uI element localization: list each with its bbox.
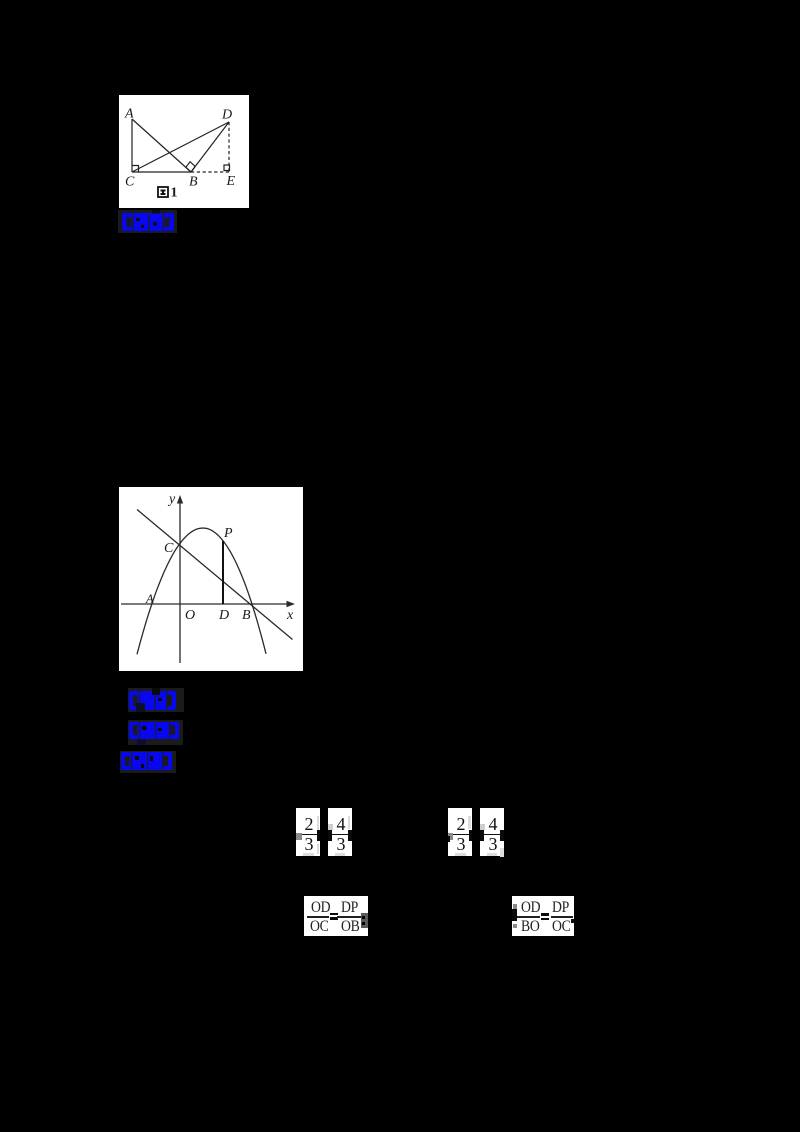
figure 1 image (geometry diagram)	[119, 95, 249, 208]
formula image fraction 4/3 (second)	[480, 808, 504, 856]
svg-text:B: B	[242, 608, 251, 623]
wire A-B	[132, 119, 191, 172]
blue tag 【考点】	[128, 688, 184, 712]
parabola curve	[137, 528, 266, 654]
wire D-B	[191, 122, 229, 172]
right-angle mark at C	[132, 166, 139, 173]
right-angle mark at E	[224, 165, 230, 171]
line through C and B	[137, 510, 293, 640]
blue tag 【专题】	[128, 720, 183, 745]
x-axis arrowhead	[287, 601, 296, 607]
dark notch bottom	[136, 703, 145, 712]
svg-text:E: E	[226, 174, 236, 189]
segment P-D	[222, 541, 224, 604]
formula image OD/OC = DP/OB	[304, 896, 368, 936]
blue tag 【分析】	[120, 751, 176, 773]
svg-text:A: A	[145, 592, 154, 606]
svg-text:A: A	[124, 107, 134, 122]
wire D-C	[132, 122, 229, 172]
artifact gray square left	[296, 833, 302, 840]
y-axis arrowhead	[177, 495, 183, 504]
y-axis	[179, 502, 181, 663]
dashed wire B-E	[191, 171, 229, 173]
artifact black bar right	[348, 830, 352, 841]
artifact mark right edge	[571, 919, 575, 924]
right-angle mark at B	[186, 162, 195, 172]
svg-text:D: D	[221, 108, 232, 123]
caption 图1	[158, 187, 168, 197]
formula image fraction 4/3 (first)	[328, 808, 352, 856]
wire A-C	[131, 119, 133, 172]
artifact pale column	[317, 816, 320, 830]
svg-text:1: 1	[171, 186, 178, 201]
svg-text:y: y	[167, 492, 176, 507]
equals sign	[541, 913, 550, 916]
svg-text:x: x	[286, 608, 294, 623]
dark notch bottom	[137, 739, 146, 745]
artifact black bar right	[317, 830, 320, 841]
equals sign	[330, 913, 338, 916]
dashed wire D-E	[228, 122, 230, 172]
svg-text:P: P	[223, 526, 233, 541]
formula image fraction 2/3 (second)	[448, 808, 472, 856]
formula image OD/BO = DP/OC	[512, 896, 574, 936]
svg-text:C: C	[164, 541, 174, 556]
svg-text:C: C	[125, 175, 135, 190]
svg-text:B: B	[189, 175, 198, 190]
artifact gray block right	[361, 913, 368, 928]
formula image fraction 2/3 (first)	[296, 808, 320, 856]
artifact black bar left	[328, 830, 332, 841]
wire C-B	[132, 171, 191, 173]
artifact marks left edge	[513, 904, 517, 909]
figure 2 image (parabola graph)	[119, 487, 303, 671]
svg-text:D: D	[218, 608, 229, 623]
x-axis	[121, 603, 289, 605]
svg-text:O: O	[185, 608, 195, 623]
blue tag 【点评】	[118, 210, 177, 233]
